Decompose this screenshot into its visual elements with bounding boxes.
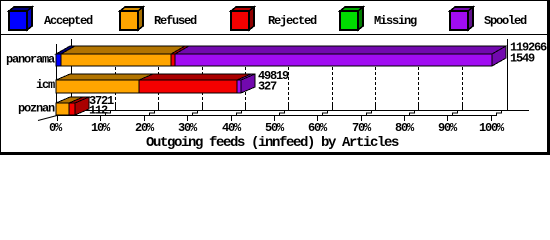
- tick 80%: [404, 115, 406, 121]
- panorama front orange (Refused): [61, 54, 171, 66]
- tick 0%: [57, 115, 59, 121]
- poznan side cap red: [75, 97, 89, 115]
- svg-text:1549: 1549: [510, 52, 535, 66]
- legend cube Rejected (red): [231, 7, 254, 30]
- x-axis tick labels: [49, 121, 505, 135]
- right back vertical (100% line): [507, 39, 508, 111]
- svg-text:112: 112: [89, 104, 108, 118]
- image border right: [547, 0, 550, 155]
- icm top face red: [139, 74, 253, 80]
- svg-text:Spooled: Spooled: [484, 14, 527, 28]
- svg-text:0%: 0%: [49, 121, 63, 135]
- tick 10%: [100, 115, 102, 121]
- tick 50%: [274, 115, 276, 121]
- legend separator line: [0, 34, 550, 35]
- svg-text:50%: 50%: [265, 121, 285, 135]
- tick 30%: [187, 115, 189, 121]
- tick 90%: [447, 115, 449, 121]
- bar panorama: [56, 46, 506, 66]
- legend cube Spooled (purple): [450, 7, 473, 30]
- icm front purple (Spooled): [237, 80, 241, 93]
- tick 20%: [144, 115, 146, 121]
- front y-axis line: [56, 44, 57, 116]
- image border top: [0, 0, 550, 1]
- panorama top face orange: [61, 46, 185, 54]
- tick 70%: [361, 115, 363, 121]
- back baseline: [71, 110, 529, 111]
- legend cube Refused (orange): [120, 7, 143, 30]
- dashed gridlines (back plane, 10%..90%): [116, 47, 463, 110]
- svg-text:Missing: Missing: [374, 14, 417, 28]
- legend cube Missing (green): [340, 7, 363, 30]
- svg-text:icm: icm: [36, 78, 55, 92]
- svg-text:100%: 100%: [479, 121, 505, 135]
- bar icm: [56, 74, 255, 93]
- svg-text:80%: 80%: [395, 121, 415, 135]
- image border left: [0, 0, 1, 155]
- svg-text:20%: 20%: [135, 121, 155, 135]
- icm top face purple: [237, 74, 255, 80]
- svg-text:327: 327: [258, 80, 277, 94]
- svg-text:panorama: panorama: [6, 53, 55, 67]
- svg-text:40%: 40%: [222, 121, 242, 135]
- panorama front purple (Spooled): [175, 54, 492, 66]
- svg-text:10%: 10%: [91, 121, 111, 135]
- poznan top face red: [69, 97, 90, 103]
- poznan front red (Rejected): [69, 103, 75, 115]
- back y-axis line: [71, 39, 72, 111]
- panorama front blue (Accepted): [56, 54, 61, 66]
- tick 60%: [317, 115, 319, 121]
- panorama side cap purple: [492, 46, 506, 66]
- svg-text:90%: 90%: [438, 121, 458, 135]
- poznan top face orange: [56, 97, 83, 103]
- icm top face orange: [56, 74, 153, 80]
- svg-text:Refused: Refused: [154, 14, 197, 28]
- icm front orange (Refused): [56, 80, 139, 93]
- panorama top face purple: [175, 46, 506, 54]
- svg-text:70%: 70%: [352, 121, 372, 135]
- front baseline: [56, 115, 492, 116]
- icm front red (Rejected): [139, 80, 237, 93]
- svg-text:Accepted: Accepted: [44, 14, 93, 28]
- tick 40%: [231, 115, 233, 121]
- svg-text:Outgoing feeds (innfeed) by Ar: Outgoing feeds (innfeed) by Articles: [146, 135, 399, 151]
- panorama top face blue: [56, 46, 75, 54]
- svg-text:poznan: poznan: [18, 102, 55, 116]
- bar poznan: [56, 97, 90, 115]
- legend cube Accepted (blue): [9, 7, 32, 30]
- panorama top face red: [171, 46, 189, 54]
- poznan front orange (Refused): [56, 103, 69, 115]
- svg-text:Rejected: Rejected: [268, 14, 317, 28]
- svg-text:60%: 60%: [308, 121, 328, 135]
- tick 100%: [491, 115, 493, 121]
- icm side cap purple: [241, 74, 255, 93]
- image border bottom: [0, 152, 550, 155]
- axis ticks and staircases: [58, 104, 507, 121]
- svg-text:30%: 30%: [178, 121, 198, 135]
- panorama front red (Rejected): [171, 54, 175, 66]
- origin depth diagonal: [38, 111, 71, 121]
